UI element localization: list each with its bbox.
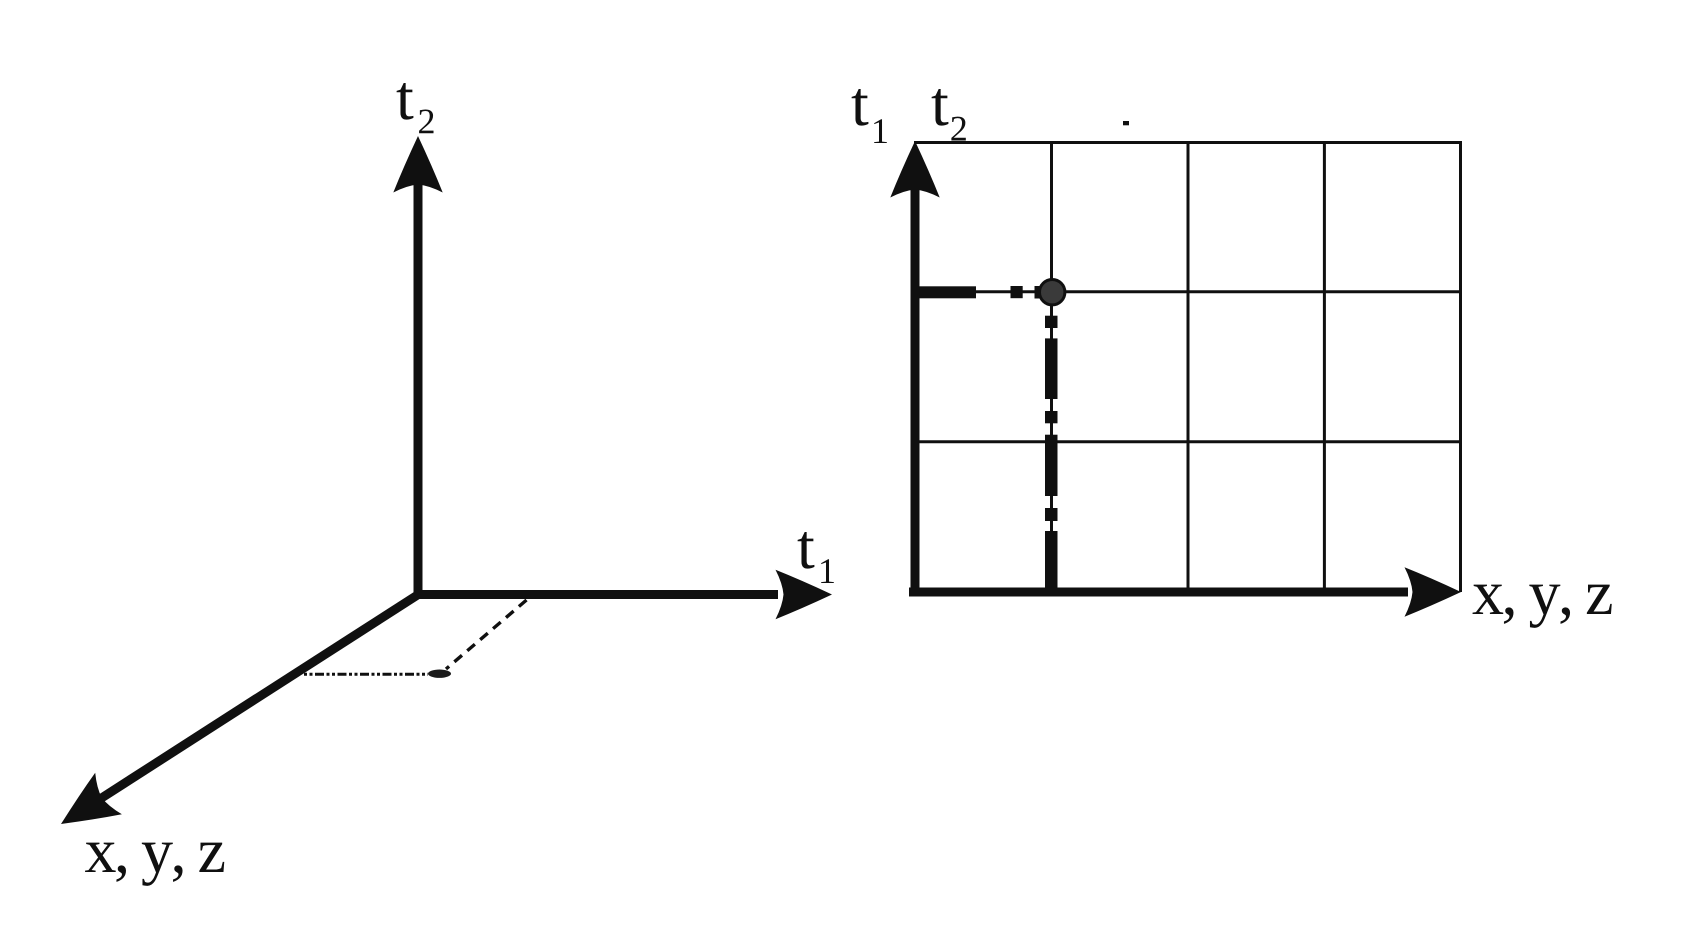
tiny mark <box>1123 121 1129 125</box>
axis t1 horizontal shaft <box>414 590 779 599</box>
grid horizontal line row1 <box>915 290 1461 293</box>
label t1-left-t <box>798 532 815 569</box>
dashed projection line to t1 axis <box>446 600 527 669</box>
axis xyz diagonal shaft <box>100 595 418 799</box>
thick dash vertical seg2 <box>1045 338 1058 399</box>
grid vertical line col1 <box>1050 142 1053 592</box>
label t2-right-t <box>932 89 949 126</box>
label xyz-left <box>85 843 224 886</box>
axis t2 arrowhead <box>393 136 442 193</box>
label xyz-right <box>1473 585 1612 628</box>
axis xyz arrowhead <box>48 773 122 845</box>
thick dash horizontal seg1 <box>920 286 977 298</box>
right axis vertical shaft <box>911 185 920 596</box>
label t1-left-sub <box>821 559 834 583</box>
grid horizontal line row2 <box>915 440 1461 443</box>
right axis horizontal arrowhead <box>1405 567 1462 616</box>
grid vertical line col3 <box>1323 142 1326 592</box>
grid horizontal top line <box>914 141 1461 144</box>
grid point circle <box>1040 280 1065 305</box>
grid vertical line col2 <box>1187 142 1190 592</box>
grid vertical right edge <box>1459 141 1462 592</box>
label t1-right-t <box>852 89 869 126</box>
label t1-right-sub <box>874 119 887 143</box>
label t2-right-sub <box>951 117 965 141</box>
thick dash vertical square3 <box>1045 411 1058 423</box>
right axis horizontal shaft <box>909 588 1408 597</box>
thick dash vertical square1 <box>1045 316 1058 328</box>
axis t1 arrowhead <box>776 570 833 619</box>
label t2-left-sub <box>419 109 433 133</box>
point ellipse <box>428 670 451 678</box>
right axis vertical arrowhead <box>890 141 939 198</box>
thick dash horizontal square2 <box>1011 286 1023 298</box>
thick dash vertical seg4 <box>1045 435 1058 496</box>
axis t2 vertical shaft <box>414 180 423 599</box>
thick dash vertical seg6 <box>1045 531 1058 594</box>
thick dash vertical square5 <box>1045 508 1058 521</box>
thick dash horizontal square3 <box>1035 286 1048 299</box>
label t2-left-t <box>397 83 414 120</box>
dash-dot projection line to xyz axis <box>304 673 428 676</box>
